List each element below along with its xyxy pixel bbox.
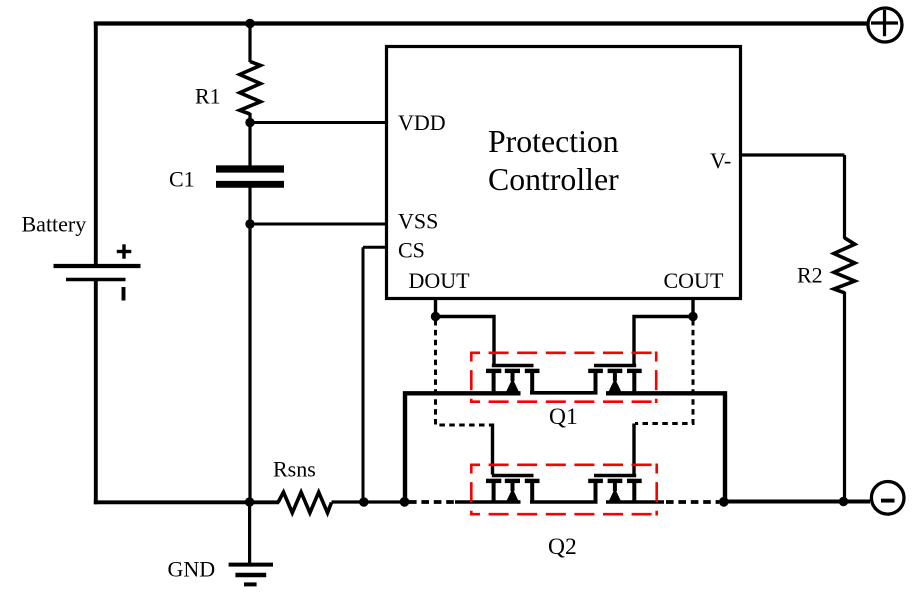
svg-text:GND: GND bbox=[168, 557, 216, 582]
wire CS vertical to sense node bbox=[362, 247, 365, 503]
wire COUT dashed to Q2 gate bbox=[635, 320, 693, 424]
wire Q2 drain middle rail bbox=[530, 500, 598, 504]
node COUT junction bbox=[688, 312, 697, 321]
wire R1 top lead bbox=[248, 24, 251, 63]
wire Q2 source rail right bbox=[606, 500, 664, 504]
resistor R2 bbox=[834, 238, 855, 293]
wire V- from controller bbox=[741, 153, 845, 156]
wire bottom rail left of Rsns bbox=[94, 500, 279, 504]
node pack negative branch junction bbox=[400, 497, 410, 507]
svg-text:Q1: Q1 bbox=[549, 404, 578, 430]
node CS sense junction bbox=[359, 497, 368, 506]
svg-text:R2: R2 bbox=[797, 263, 823, 288]
transistor Q1 right MOSFET bbox=[588, 366, 642, 395]
wire COUT stub bbox=[691, 299, 694, 317]
wire Q1 source rail right thick bbox=[606, 393, 725, 501]
node DOUT junction bbox=[431, 312, 440, 321]
wire DOUT to Q1 left gate bbox=[436, 317, 495, 365]
transistor Q1 left MOSFET bbox=[486, 366, 540, 395]
svg-text:CS: CS bbox=[398, 238, 425, 263]
wire bottom rail Rsns to Q junction bbox=[332, 500, 407, 503]
wire DOUT stub bbox=[434, 299, 437, 317]
wire bottom rail dashed right of Q2 bbox=[666, 500, 719, 504]
svg-text:Battery: Battery bbox=[22, 211, 87, 236]
node R2 bottom junction bbox=[839, 497, 848, 506]
node Q drain bottom junction bbox=[719, 497, 729, 507]
wire Q1 source rail left thick bbox=[405, 393, 521, 502]
capacitor C1 bbox=[216, 169, 284, 184]
wire DOUT dashed to Q2 gate bbox=[436, 320, 492, 425]
svg-text:C1: C1 bbox=[169, 166, 195, 191]
wire C1 bottom to GND branch vertical bbox=[248, 188, 251, 504]
svg-text:V-: V- bbox=[710, 148, 731, 173]
wire R2 bottom lead bbox=[843, 292, 846, 502]
wire R1 bottom lead to VDD node bbox=[248, 113, 251, 166]
svg-text:Q2: Q2 bbox=[548, 534, 577, 560]
wire top rail B+ bbox=[94, 21, 867, 25]
battery BT1 bbox=[54, 244, 141, 300]
node VDD junction bbox=[245, 118, 254, 127]
resistor R1 bbox=[240, 62, 261, 115]
svg-text:VDD: VDD bbox=[398, 110, 446, 135]
svg-text:R1: R1 bbox=[195, 84, 221, 109]
wire VDD bbox=[250, 121, 387, 124]
svg-text:DOUT: DOUT bbox=[409, 268, 471, 293]
wire COUT to Q1 right gate bbox=[634, 317, 693, 365]
node GND branch junction bbox=[245, 497, 254, 506]
wire bottom rail dashed left of Q2 bbox=[409, 500, 457, 504]
wire Q2 source rail left bbox=[455, 500, 521, 504]
op-amp U1 Protection Controller box bbox=[387, 47, 741, 299]
annotation box Q2 red dashed bbox=[470, 464, 658, 516]
wire battery left vertical lower bbox=[94, 281, 98, 505]
wire bottom rail to pack negative bbox=[721, 500, 870, 504]
node top rail junction bbox=[245, 19, 255, 29]
terminal pack positive bbox=[868, 8, 902, 42]
annotation box Q1 red dashed bbox=[470, 352, 658, 404]
ground bbox=[229, 565, 273, 585]
svg-text:VSS: VSS bbox=[398, 209, 438, 234]
wire GND vertical bbox=[248, 502, 251, 564]
transistor Q2 right MOSFET bbox=[588, 476, 642, 504]
node VSS junction bbox=[245, 219, 254, 228]
svg-text:COUT: COUT bbox=[664, 268, 724, 293]
transistor Q2 left MOSFET bbox=[486, 476, 540, 504]
wire Q2 left gate vertical bbox=[491, 424, 494, 475]
wire VSS bbox=[250, 223, 387, 226]
svg-text:Protection: Protection bbox=[488, 124, 619, 159]
terminal pack negative bbox=[871, 482, 904, 515]
resistor Rsns bbox=[278, 492, 332, 513]
wire Q2 right gate vertical bbox=[632, 424, 635, 475]
svg-text:Controller: Controller bbox=[488, 162, 619, 197]
wire R2 top lead bbox=[843, 155, 846, 239]
wire battery left vertical upper bbox=[94, 22, 98, 265]
wire CS horizontal bbox=[363, 246, 387, 249]
svg-text:Rsns: Rsns bbox=[273, 457, 316, 482]
wire Q1 drain middle rail bbox=[530, 391, 598, 395]
